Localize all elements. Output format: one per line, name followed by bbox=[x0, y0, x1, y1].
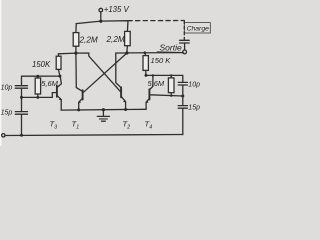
svg-text:Charge: Charge bbox=[187, 26, 210, 33]
svg-text:3: 3 bbox=[54, 124, 57, 130]
svg-text:1: 1 bbox=[76, 124, 79, 130]
svg-text:10p: 10p bbox=[1, 85, 13, 92]
svg-text:5,6M: 5,6M bbox=[148, 79, 165, 88]
svg-text:15p: 15p bbox=[1, 110, 13, 117]
svg-text:+135 V: +135 V bbox=[104, 5, 130, 14]
svg-text:Sortie: Sortie bbox=[160, 42, 182, 52]
svg-text:10p: 10p bbox=[188, 82, 200, 89]
svg-text:150 K: 150 K bbox=[151, 56, 172, 65]
svg-text:15p: 15p bbox=[188, 105, 200, 112]
svg-text:5,6M: 5,6M bbox=[41, 79, 58, 88]
svg-text:4: 4 bbox=[149, 124, 152, 130]
svg-text:2,2M: 2,2M bbox=[106, 35, 125, 44]
svg-text:150K: 150K bbox=[32, 60, 51, 69]
svg-text:2: 2 bbox=[126, 124, 130, 130]
svg-text:2,2M: 2,2M bbox=[79, 36, 98, 45]
